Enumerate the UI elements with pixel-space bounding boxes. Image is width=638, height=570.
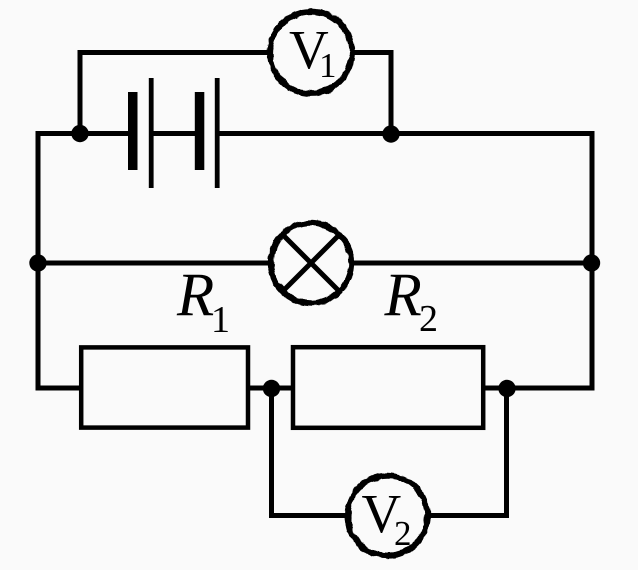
wire: V1 branch left (node up and over to V1) — [80, 53, 270, 136]
wire: V1 branch right (V1 over and down to node) — [353, 53, 392, 136]
resistor R2 (box) — [293, 347, 483, 428]
voltmeter V2 — [348, 476, 428, 556]
svg-text:2: 2 — [419, 298, 438, 340]
wire: battery mid link — [153, 131, 196, 136]
wire: V2 branch left (node down and over to V2) — [272, 385, 347, 516]
node: junction right of R2 / V2 branch — [498, 380, 515, 397]
lamp L1 — [271, 223, 351, 303]
wire: middle rail left to lamp — [38, 261, 270, 266]
wire: link between R1 and R2 — [248, 386, 294, 391]
node: junction between R1 and R2 / V2 branch — [263, 380, 280, 397]
voltmeter V1 — [270, 12, 352, 94]
wire: middle rail lamp to right — [352, 261, 592, 266]
wire: bottom rail from right vertical to R2 — [483, 386, 595, 391]
node: junction of middle rail and right vertical — [583, 254, 600, 271]
wire: top rail from battery to right corner — [219, 131, 595, 136]
svg-text:2: 2 — [394, 514, 412, 553]
battery B1 (two cells) — [128, 78, 220, 188]
node: junction of V1 branch and top rail (right) — [382, 125, 399, 142]
node: junction of V1 branch and top rail (left) — [71, 125, 88, 142]
node: junction of middle rail and left vertical — [29, 254, 46, 271]
svg-text:1: 1 — [319, 46, 337, 85]
svg-text:R: R — [176, 262, 214, 329]
svg-text:1: 1 — [211, 299, 230, 341]
wire: V2 branch right (V2 over and up to node) — [429, 385, 507, 516]
label R1 — [176, 262, 230, 341]
svg-text:R: R — [384, 262, 422, 329]
wire: top rail from left corner to battery — [36, 131, 129, 136]
label R2 — [384, 262, 439, 340]
wire: right vertical — [590, 131, 595, 391]
wire: left vertical branch from top rail down to R1 — [38, 131, 81, 388]
resistor R1 (box) — [81, 347, 248, 427]
